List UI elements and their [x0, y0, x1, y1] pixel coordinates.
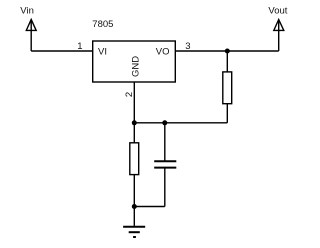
wire junction to capacitor C1 top [164, 123, 166, 161]
svg-text:2: 2 [124, 92, 135, 97]
terminal Vin [26, 20, 36, 52]
svg-text:Vin: Vin [20, 5, 34, 16]
wire pin VO to Vout [175, 50, 278, 52]
svg-text:GND: GND [131, 56, 142, 77]
node junction at VO wire [225, 49, 230, 54]
regulator U1 7805 body [93, 41, 176, 82]
node junction capacitor top [162, 120, 167, 125]
wire resistor R1 bottom down [226, 104, 228, 123]
node junction pin2 / bottom wire [132, 120, 137, 125]
svg-text:7805: 7805 [92, 19, 113, 30]
wire junction to resistor R2 top [133, 123, 135, 143]
resistor R2 [130, 143, 139, 175]
node junction ground [132, 204, 137, 209]
resistor R1 [223, 72, 232, 104]
ground [123, 207, 145, 238]
wire Vin to pin VI [31, 50, 92, 52]
svg-text:1: 1 [77, 41, 82, 52]
wire junction to resistor R1 top [226, 51, 228, 72]
capacitor C1 [154, 161, 176, 167]
svg-text:VO: VO [156, 47, 170, 58]
wire resistor R2 bottom to ground node [133, 175, 135, 207]
svg-text:VI: VI [98, 47, 107, 58]
wire capacitor bottom to ground node [134, 206, 165, 208]
terminal Vout [274, 20, 284, 52]
wire bottom horizontal [134, 122, 227, 124]
wire capacitor C1 bottom down [164, 168, 166, 206]
svg-text:Vout: Vout [268, 5, 287, 16]
wire pin 2 down [133, 82, 135, 123]
svg-text:3: 3 [185, 41, 190, 52]
